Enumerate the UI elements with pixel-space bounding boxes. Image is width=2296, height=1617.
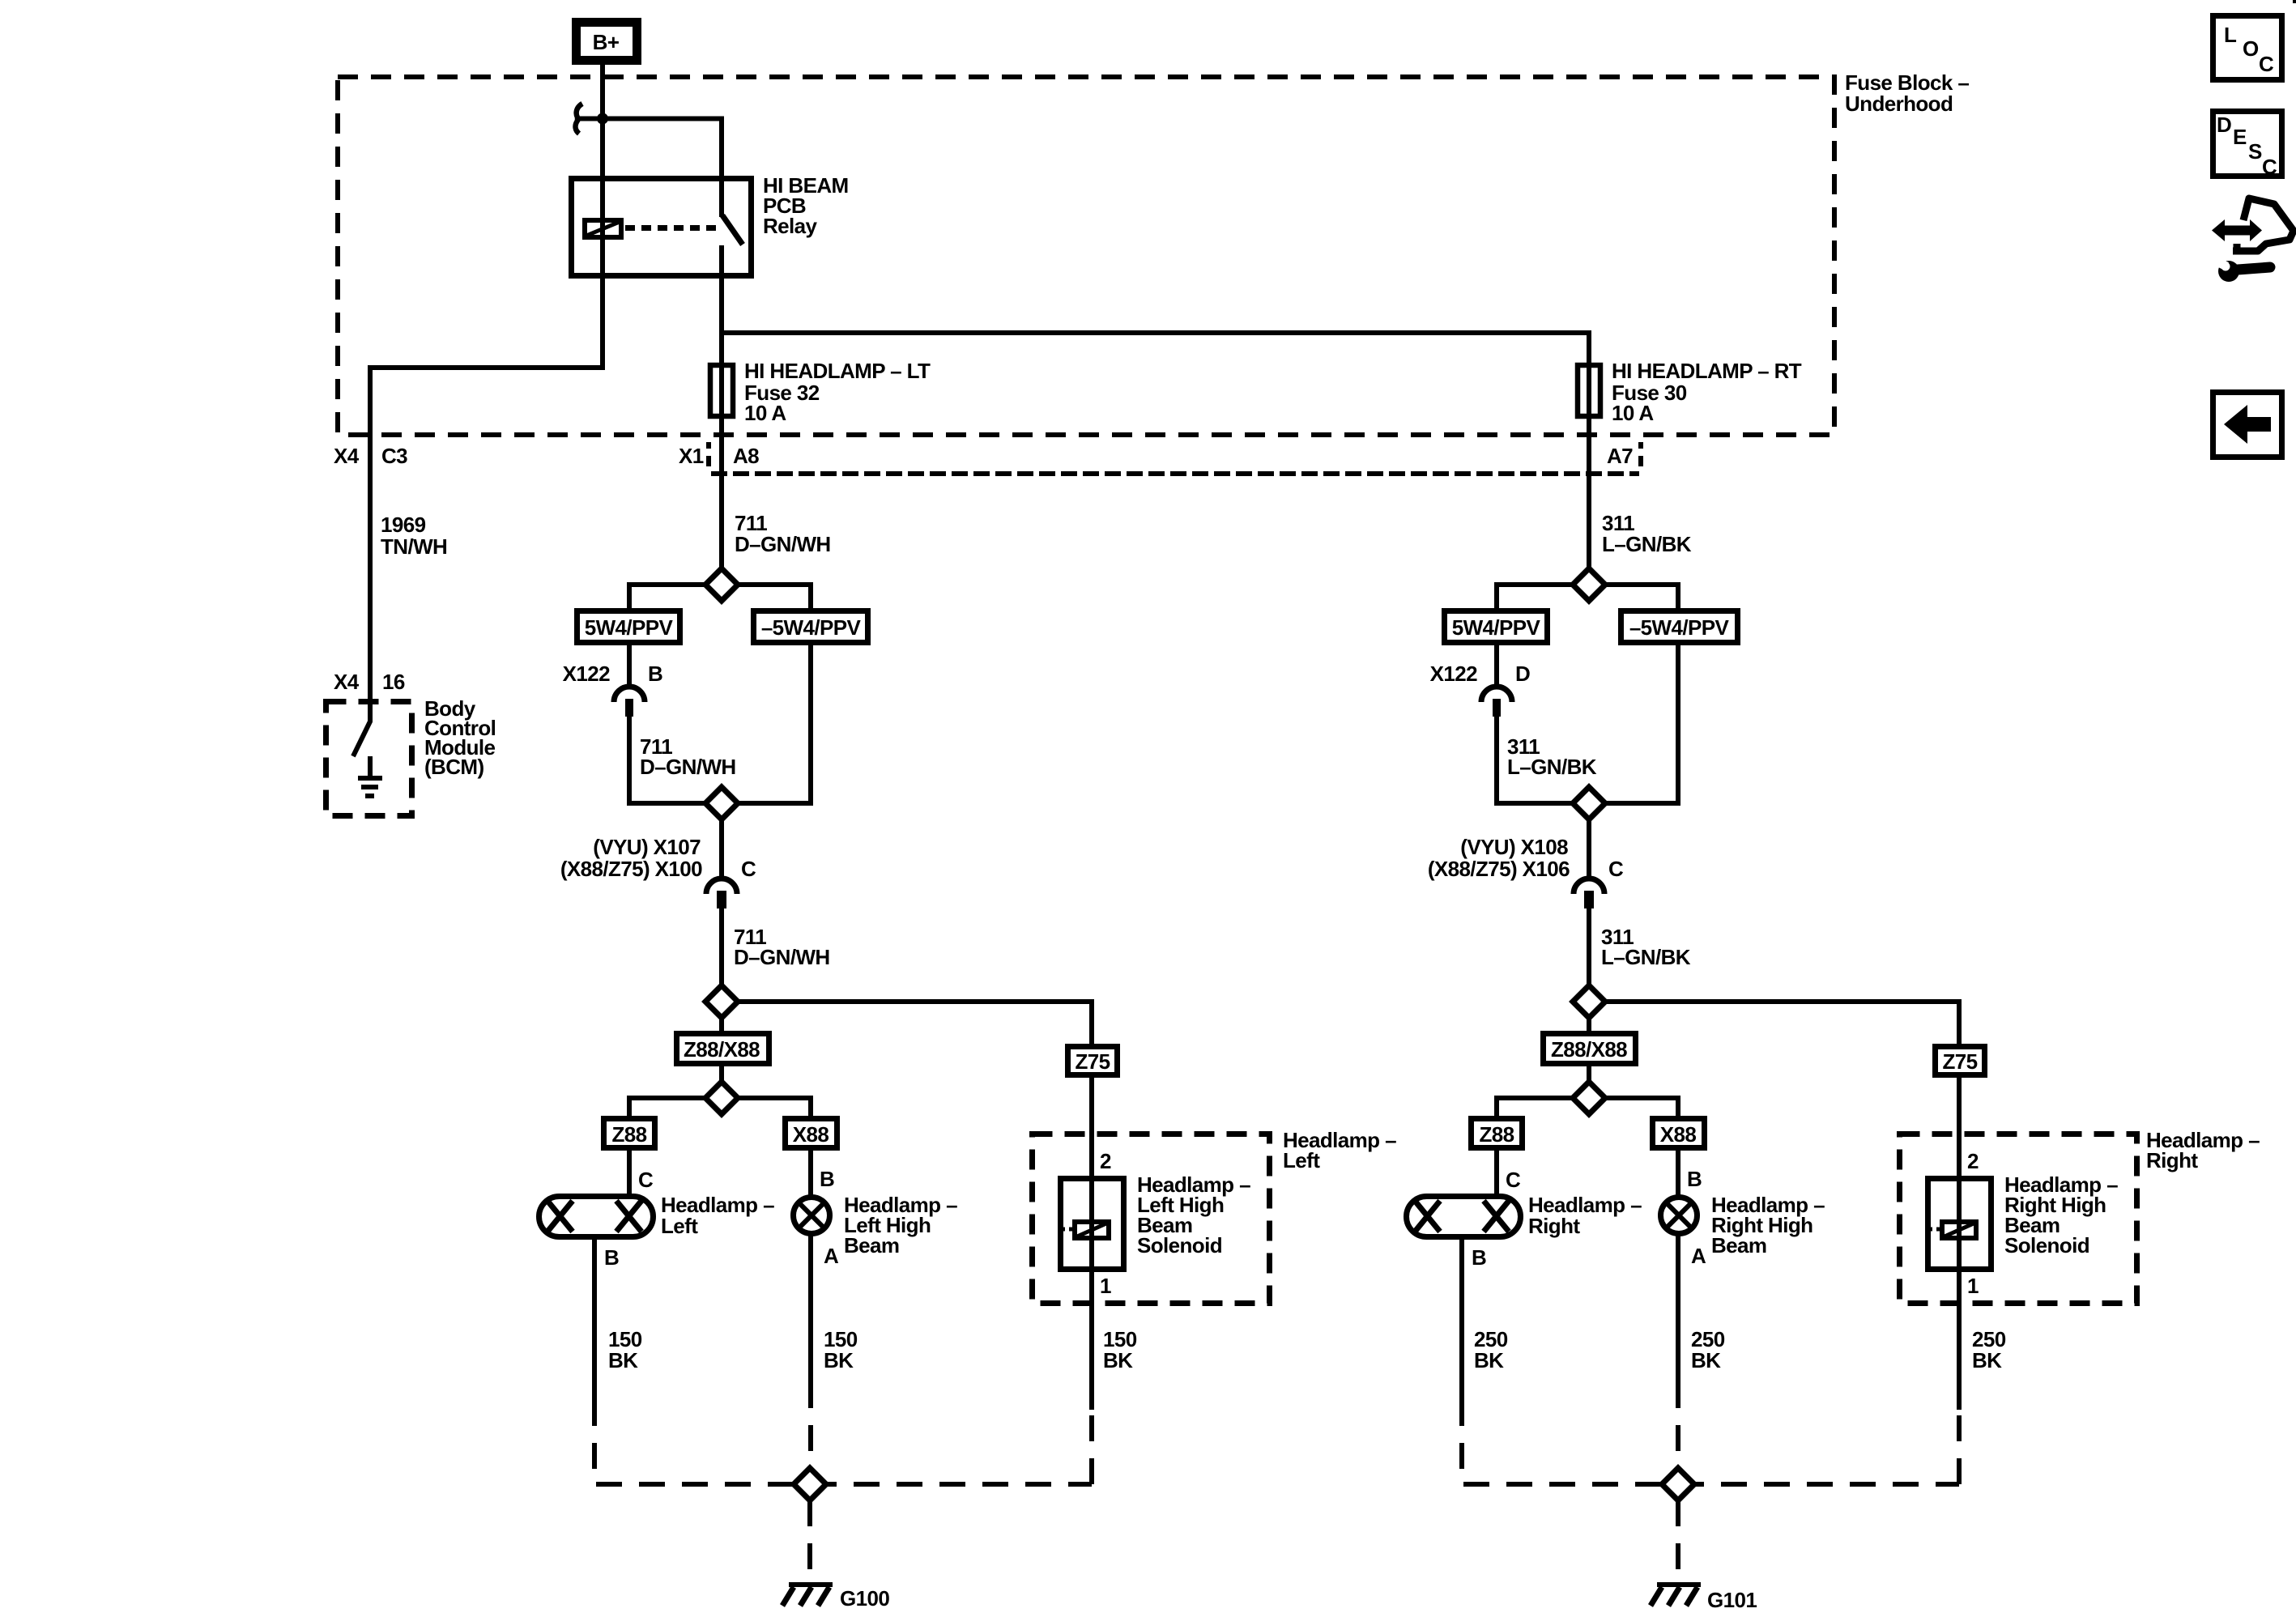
svg-text:D–GN/WH: D–GN/WH — [640, 755, 736, 779]
svg-text:(X88/Z75) X100: (X88/Z75) X100 — [560, 857, 702, 881]
wire branch from junction to relay switch — [577, 119, 722, 218]
svg-text:2: 2 — [1967, 1149, 1979, 1173]
svg-text:E: E — [2233, 125, 2247, 149]
svg-text:–5W4/PPV: –5W4/PPV — [761, 615, 862, 640]
connector X122 arc left — [614, 687, 645, 717]
svg-text:Relay: Relay — [763, 214, 818, 238]
harness option box -5W4/PPV right — [1621, 611, 1738, 643]
headlamp right assembly label — [2146, 1128, 2260, 1172]
svg-text:X4: X4 — [334, 444, 360, 468]
wire Z88/X88 to splice 4 — [719, 1064, 724, 1082]
solenoid right box — [1928, 1179, 1991, 1270]
wire headlamp right ground lead — [1459, 1237, 1464, 1400]
high beam right pin A label — [1691, 1244, 1706, 1268]
connector X122 label right — [1430, 662, 1531, 686]
net box Z75 right — [1936, 1047, 1985, 1075]
BCM label — [424, 696, 496, 779]
svg-text:X122: X122 — [563, 662, 610, 686]
wire 711 label upper — [735, 511, 831, 556]
svg-text:Left: Left — [1283, 1148, 1320, 1172]
headlamp left lamp symbol — [539, 1197, 654, 1237]
svg-text:TN/WH: TN/WH — [381, 534, 447, 559]
wire 311 label mid — [1507, 734, 1597, 779]
solenoid right coil — [1928, 1222, 1976, 1238]
wire splice to -5W4/PPV — [738, 585, 811, 611]
connector X122 label left — [563, 662, 663, 686]
connector X108/X106 labels — [1428, 835, 1624, 881]
connector pin labels X1 A8 — [679, 444, 759, 468]
svg-text:D–GN/WH: D–GN/WH — [735, 532, 831, 556]
page corner mark — [2293, 0, 2296, 3]
wire Z75 to solenoid pin 2 — [1092, 1075, 1111, 1179]
back arrow icon — [2213, 393, 2282, 457]
splice S3 diamond left — [705, 985, 738, 1018]
wire splice to 5W4/PPV — [629, 585, 705, 611]
DESC icon — [2213, 112, 2282, 180]
headlamp right assembly dashed box — [1900, 1134, 2137, 1304]
svg-text:1: 1 — [1967, 1274, 1979, 1298]
wire 1969 TN/WH label — [381, 513, 447, 559]
svg-text:BK: BK — [608, 1348, 638, 1372]
relay internal dashed link — [625, 225, 719, 231]
high beam left pin A label — [824, 1244, 839, 1268]
wire 150 BK label solenoid — [1103, 1327, 1137, 1372]
connector X106 arc right — [1574, 879, 1604, 908]
high beam bulb right — [1661, 1198, 1698, 1234]
svg-text:HI HEADLAMP – RT: HI HEADLAMP – RT — [1612, 359, 1802, 383]
wire solenoid right pin 1 down — [1959, 1179, 1979, 1410]
splice S2 diamond right — [1573, 787, 1605, 819]
wire Z88 right to headlamp right pin C — [1497, 1148, 1521, 1197]
wire 150 BK labels left — [608, 1327, 642, 1372]
svg-text:2: 2 — [1100, 1149, 1111, 1173]
splice S4 diamond left — [705, 1082, 738, 1114]
wire splice3 right to Z88/X88 — [1587, 1018, 1591, 1034]
headlamp left assembly dashed box — [1033, 1134, 1270, 1304]
svg-text:(BCM): (BCM) — [424, 755, 484, 779]
wire splice4 right to X88 — [1605, 1098, 1678, 1119]
net box Z88/X88 right — [1544, 1034, 1636, 1064]
wire 711 label mid — [640, 734, 736, 779]
wire Z88 to headlamp left pin C — [629, 1148, 654, 1197]
relay switch blade — [722, 215, 743, 245]
svg-text:B: B — [648, 662, 662, 686]
wire Z88/X88 right to splice 4 — [1587, 1064, 1591, 1082]
svg-text:D–GN/WH: D–GN/WH — [734, 945, 830, 969]
wire 150 BK label mid — [824, 1327, 858, 1372]
BCM internal switch — [353, 699, 370, 756]
svg-text:5W4/PPV: 5W4/PPV — [1452, 615, 1541, 640]
junction node on B+ feed — [597, 113, 608, 125]
splice S1 diamond left — [705, 568, 738, 601]
fuse 32 label — [744, 359, 931, 425]
svg-text:L–GN/BK: L–GN/BK — [1507, 755, 1597, 779]
svg-text:Z75: Z75 — [1075, 1049, 1110, 1074]
wire 5W4 to connector X122 — [627, 645, 632, 687]
svg-text:Right: Right — [2146, 1148, 2198, 1172]
svg-text:Beam: Beam — [1711, 1233, 1766, 1257]
headlamp right lamp symbol — [1407, 1197, 1521, 1237]
svg-text:C: C — [741, 857, 756, 881]
solenoid right label — [2004, 1172, 2118, 1257]
wire high beam left ground lead — [808, 1234, 813, 1382]
svg-text:L: L — [2224, 23, 2237, 47]
wire X122 right to splice 2 left leg — [1497, 717, 1573, 803]
svg-text:B+: B+ — [593, 30, 620, 54]
LOC icon — [2213, 16, 2282, 80]
wire 250 BK label solenoid right — [1972, 1327, 2006, 1372]
fuse 30 HI HEADLAMP RT — [1578, 365, 1600, 416]
svg-text:10 A: 10 A — [744, 401, 786, 425]
headlamp left pin B label — [604, 1245, 619, 1270]
net box X88 right — [1653, 1119, 1705, 1148]
connector X122 arc right — [1481, 687, 1512, 717]
wire splice3 right to Z75 — [1605, 1002, 1959, 1046]
svg-text:G101: G101 — [1707, 1588, 1757, 1612]
wire 250 BK labels right — [1474, 1327, 1508, 1372]
net box Z88/X88 left — [677, 1034, 769, 1064]
svg-text:C3: C3 — [381, 444, 407, 468]
wire -5W4 right to splice 2 right leg — [1605, 643, 1678, 803]
wire Z75 right to solenoid pin 2 — [1959, 1075, 1979, 1179]
wire splice to -5W4/PPV right — [1605, 585, 1678, 611]
splice S4 diamond right — [1573, 1082, 1605, 1114]
ground bus right dashed — [1462, 1382, 1959, 1484]
wire high beam right ground lead — [1676, 1234, 1680, 1382]
svg-text:L–GN/BK: L–GN/BK — [1601, 945, 1691, 969]
wire relay coil to BCM — [370, 240, 603, 699]
relay coil — [585, 220, 621, 237]
svg-text:C: C — [638, 1168, 654, 1192]
wire 711 label lower — [734, 925, 830, 969]
svg-text:B: B — [604, 1245, 619, 1270]
wire splice2 to connector X100 — [719, 819, 724, 879]
svg-text:Z88: Z88 — [1479, 1122, 1514, 1147]
connector X100 arc left — [706, 879, 737, 908]
ground bus left dashed — [594, 1382, 1092, 1484]
relay label — [763, 173, 849, 238]
connector pin label A7 — [1607, 444, 1633, 468]
svg-text:Solenoid: Solenoid — [2004, 1233, 2089, 1257]
wire relay switch output to fuse 32 — [719, 245, 724, 568]
svg-text:X122: X122 — [1430, 662, 1477, 686]
svg-text:B: B — [1472, 1245, 1486, 1270]
ground G100 label — [840, 1586, 889, 1611]
net box Z88 right — [1472, 1119, 1523, 1148]
connector X1 right tick — [1638, 442, 1643, 466]
svg-text:Right: Right — [1528, 1214, 1580, 1238]
svg-text:B: B — [820, 1167, 834, 1191]
ground G100 symbol — [782, 1585, 833, 1606]
wire splice2 right to connector X106 — [1587, 819, 1591, 879]
svg-text:Z88: Z88 — [611, 1122, 646, 1147]
fuse 32 HI HEADLAMP LT — [710, 365, 733, 416]
headlamp left assembly label — [1283, 1128, 1396, 1172]
svg-text:A8: A8 — [733, 444, 759, 468]
svg-text:1: 1 — [1100, 1274, 1111, 1298]
wire splice4 to Z88 — [629, 1098, 705, 1119]
wire from B+ to relay coil — [600, 65, 605, 218]
svg-text:X4: X4 — [334, 670, 360, 694]
svg-text:10 A: 10 A — [1612, 401, 1654, 425]
BCM internal ground — [358, 756, 382, 796]
ground splice diamond left — [794, 1468, 826, 1500]
headlamp right label — [1528, 1193, 1642, 1238]
net box Z75 left — [1068, 1047, 1118, 1075]
svg-text:O: O — [2243, 36, 2259, 61]
svg-text:BK: BK — [1972, 1348, 2002, 1372]
svg-text:A: A — [1691, 1244, 1706, 1268]
fusible link hook symbol — [576, 104, 582, 134]
high beam left label — [844, 1193, 957, 1257]
connector X1 band lower dashed line — [711, 471, 1639, 476]
relay U1 HI BEAM PCB Relay box — [572, 179, 752, 276]
svg-text:BK: BK — [1103, 1348, 1133, 1372]
svg-text:(X88/Z75) X106: (X88/Z75) X106 — [1428, 857, 1570, 881]
solenoid left box — [1061, 1179, 1124, 1270]
solenoid left coil — [1060, 1222, 1109, 1238]
ground stem right dashed — [1676, 1500, 1680, 1581]
net box Z88 left — [604, 1119, 655, 1148]
svg-text:5W4/PPV: 5W4/PPV — [585, 615, 674, 640]
svg-text:HI HEADLAMP – LT: HI HEADLAMP – LT — [744, 359, 931, 383]
wire splice4 right to Z88 — [1497, 1098, 1573, 1119]
wire branch to fuse 30 — [722, 333, 1589, 568]
svg-text:D: D — [2217, 113, 2232, 137]
svg-text:(VYU) X107: (VYU) X107 — [593, 835, 701, 859]
svg-text:X1: X1 — [679, 444, 704, 468]
wire solenoid pin 1 down — [1092, 1179, 1111, 1410]
svg-text:C: C — [1506, 1168, 1521, 1192]
wire 5W4 right to connector X122 — [1494, 645, 1499, 687]
harness option box -5W4/PPV left — [754, 611, 868, 643]
wire X100 to splice 3 — [719, 908, 724, 985]
wire splice to 5W4/PPV right — [1497, 585, 1573, 611]
wire X88 to high beam left pin B — [811, 1148, 834, 1198]
connector X1 left tick — [706, 442, 711, 466]
fuse block label — [1845, 70, 1969, 116]
svg-text:Z88/X88: Z88/X88 — [684, 1037, 760, 1062]
svg-text:Z88/X88: Z88/X88 — [1551, 1037, 1627, 1062]
wire -5W4 to splice 2 right leg — [738, 643, 811, 803]
ground G101 label — [1707, 1588, 1757, 1612]
connector X107/X100 labels — [560, 835, 756, 881]
svg-text:Beam: Beam — [844, 1233, 899, 1257]
ground G101 symbol — [1651, 1585, 1701, 1606]
svg-text:L–GN/BK: L–GN/BK — [1602, 532, 1692, 556]
diagnostic hand and wrench icon — [2212, 198, 2294, 282]
splice S2 diamond left — [705, 787, 738, 819]
svg-text:Underhood: Underhood — [1845, 91, 1953, 116]
wire X122 to splice 2 left leg — [629, 717, 705, 803]
svg-text:Solenoid: Solenoid — [1137, 1233, 1222, 1257]
wire splice4 to X88 — [738, 1098, 811, 1119]
ground stem left dashed — [807, 1500, 812, 1581]
battery B+ terminal — [577, 23, 637, 61]
fuse block underhood dashed box — [338, 77, 1834, 435]
svg-text:–5W4/PPV: –5W4/PPV — [1629, 615, 1730, 640]
svg-text:S: S — [2248, 139, 2262, 164]
svg-text:(VYU) X108: (VYU) X108 — [1460, 835, 1568, 859]
splice S1 diamond right — [1573, 568, 1605, 601]
solenoid left label — [1137, 1172, 1250, 1257]
svg-text:D: D — [1515, 662, 1530, 686]
wire 311 label upper — [1602, 511, 1692, 556]
high beam right label — [1711, 1193, 1825, 1257]
wire splice3 to Z75 left — [738, 1002, 1092, 1046]
svg-text:Z75: Z75 — [1942, 1049, 1977, 1074]
svg-text:X88: X88 — [1660, 1122, 1697, 1147]
svg-text:A7: A7 — [1607, 444, 1633, 468]
headlamp right pin B label — [1472, 1245, 1486, 1270]
svg-text:BK: BK — [1691, 1348, 1721, 1372]
svg-text:1969: 1969 — [381, 513, 426, 537]
wire headlamp left ground lead — [592, 1237, 597, 1400]
harness option box 5W4/PPV right — [1445, 611, 1548, 643]
BCM pin labels X4 16 — [334, 670, 405, 694]
svg-text:X88: X88 — [793, 1122, 829, 1147]
wire 311 label lower — [1601, 925, 1691, 969]
ground splice diamond right — [1662, 1468, 1694, 1500]
svg-text:Left: Left — [661, 1214, 698, 1238]
svg-text:BK: BK — [1474, 1348, 1504, 1372]
svg-text:C: C — [2262, 155, 2277, 179]
svg-text:G100: G100 — [840, 1586, 889, 1611]
body control module dashed box — [326, 702, 412, 816]
svg-text:16: 16 — [382, 670, 405, 694]
wire splice3 to Z88/X88 left — [719, 1018, 724, 1034]
wire 250 BK label mid right — [1691, 1327, 1725, 1372]
svg-text:BK: BK — [824, 1348, 854, 1372]
wire X106 to splice 3 right — [1587, 908, 1591, 985]
harness option box 5W4/PPV left — [577, 611, 680, 643]
wire X88 right to high beam right pin B — [1678, 1148, 1702, 1198]
svg-text:A: A — [824, 1244, 839, 1268]
svg-text:C: C — [1608, 857, 1624, 881]
fuse 30 label — [1612, 359, 1802, 425]
svg-text:C: C — [2259, 52, 2274, 76]
high beam bulb left — [794, 1198, 830, 1234]
headlamp left label — [661, 1193, 774, 1238]
svg-text:B: B — [1687, 1167, 1702, 1191]
splice S3 diamond right — [1573, 985, 1605, 1018]
net box X88 left — [786, 1119, 837, 1148]
connector pin labels X4 C3 — [334, 444, 407, 468]
